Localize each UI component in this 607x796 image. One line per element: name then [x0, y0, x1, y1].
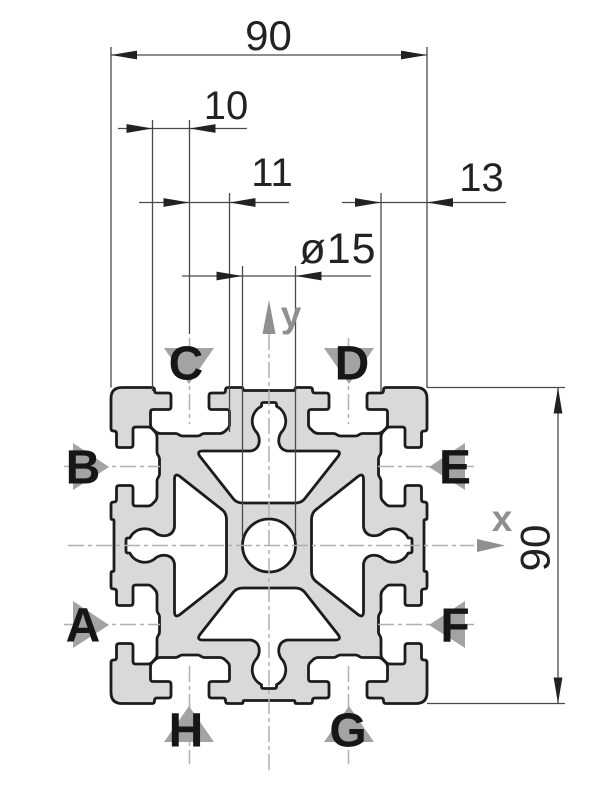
svg-text:E: E — [439, 442, 471, 495]
slot D centerline — [348, 338, 350, 424]
vertical centerline (y axis) — [268, 334, 270, 772]
slot G centerline — [348, 666, 350, 764]
svg-text:90: 90 — [245, 12, 292, 59]
svg-text:ø15: ø15 — [299, 225, 376, 273]
slot label H — [164, 706, 214, 742]
svg-text:11: 11 — [251, 151, 293, 195]
svg-text:10: 10 — [204, 84, 249, 128]
slot C centerline — [189, 338, 191, 424]
profile body 90x90 outer contour with 8 T-slots — [111, 388, 427, 704]
svg-text:C: C — [169, 338, 204, 391]
slot F centerline — [378, 624, 474, 626]
central bore ø15 — [243, 519, 296, 572]
slot label C — [164, 348, 214, 384]
svg-text:H: H — [169, 705, 204, 758]
svg-text:B: B — [66, 442, 101, 495]
face cavity bottom — [199, 588, 340, 689]
face cavity left — [126, 475, 227, 616]
slot B centerline — [64, 466, 160, 468]
dimension 13 — [380, 193, 382, 392]
slot A centerline — [64, 624, 160, 626]
dimension 10 — [152, 120, 154, 391]
svg-text:x: x — [492, 498, 513, 539]
svg-text:A: A — [66, 600, 101, 653]
svg-text:y: y — [281, 294, 302, 335]
horizontal centerline (x axis) — [68, 545, 474, 547]
dimension 11 — [229, 193, 231, 432]
svg-text:13: 13 — [459, 156, 504, 200]
dimension 90 (top width) — [110, 47, 112, 388]
svg-text:90: 90 — [512, 525, 559, 572]
svg-text:G: G — [329, 705, 366, 758]
face cavity right — [312, 475, 413, 616]
slot label F — [429, 601, 465, 648]
slot E centerline — [378, 466, 474, 468]
slot label E — [429, 443, 465, 490]
svg-text:F: F — [440, 600, 469, 653]
x axis arrow — [477, 539, 505, 552]
face cavity top with keyhole channel — [199, 403, 340, 504]
slot label D — [324, 348, 374, 384]
dimension 90 (right height) — [427, 387, 565, 389]
slot label B — [73, 443, 109, 490]
dimension ø15 (central bore) — [242, 266, 244, 537]
y axis arrow — [263, 300, 276, 334]
svg-text:D: D — [335, 338, 370, 391]
slot label G — [324, 706, 374, 742]
slot H centerline — [189, 666, 191, 764]
slot label A — [73, 601, 109, 648]
